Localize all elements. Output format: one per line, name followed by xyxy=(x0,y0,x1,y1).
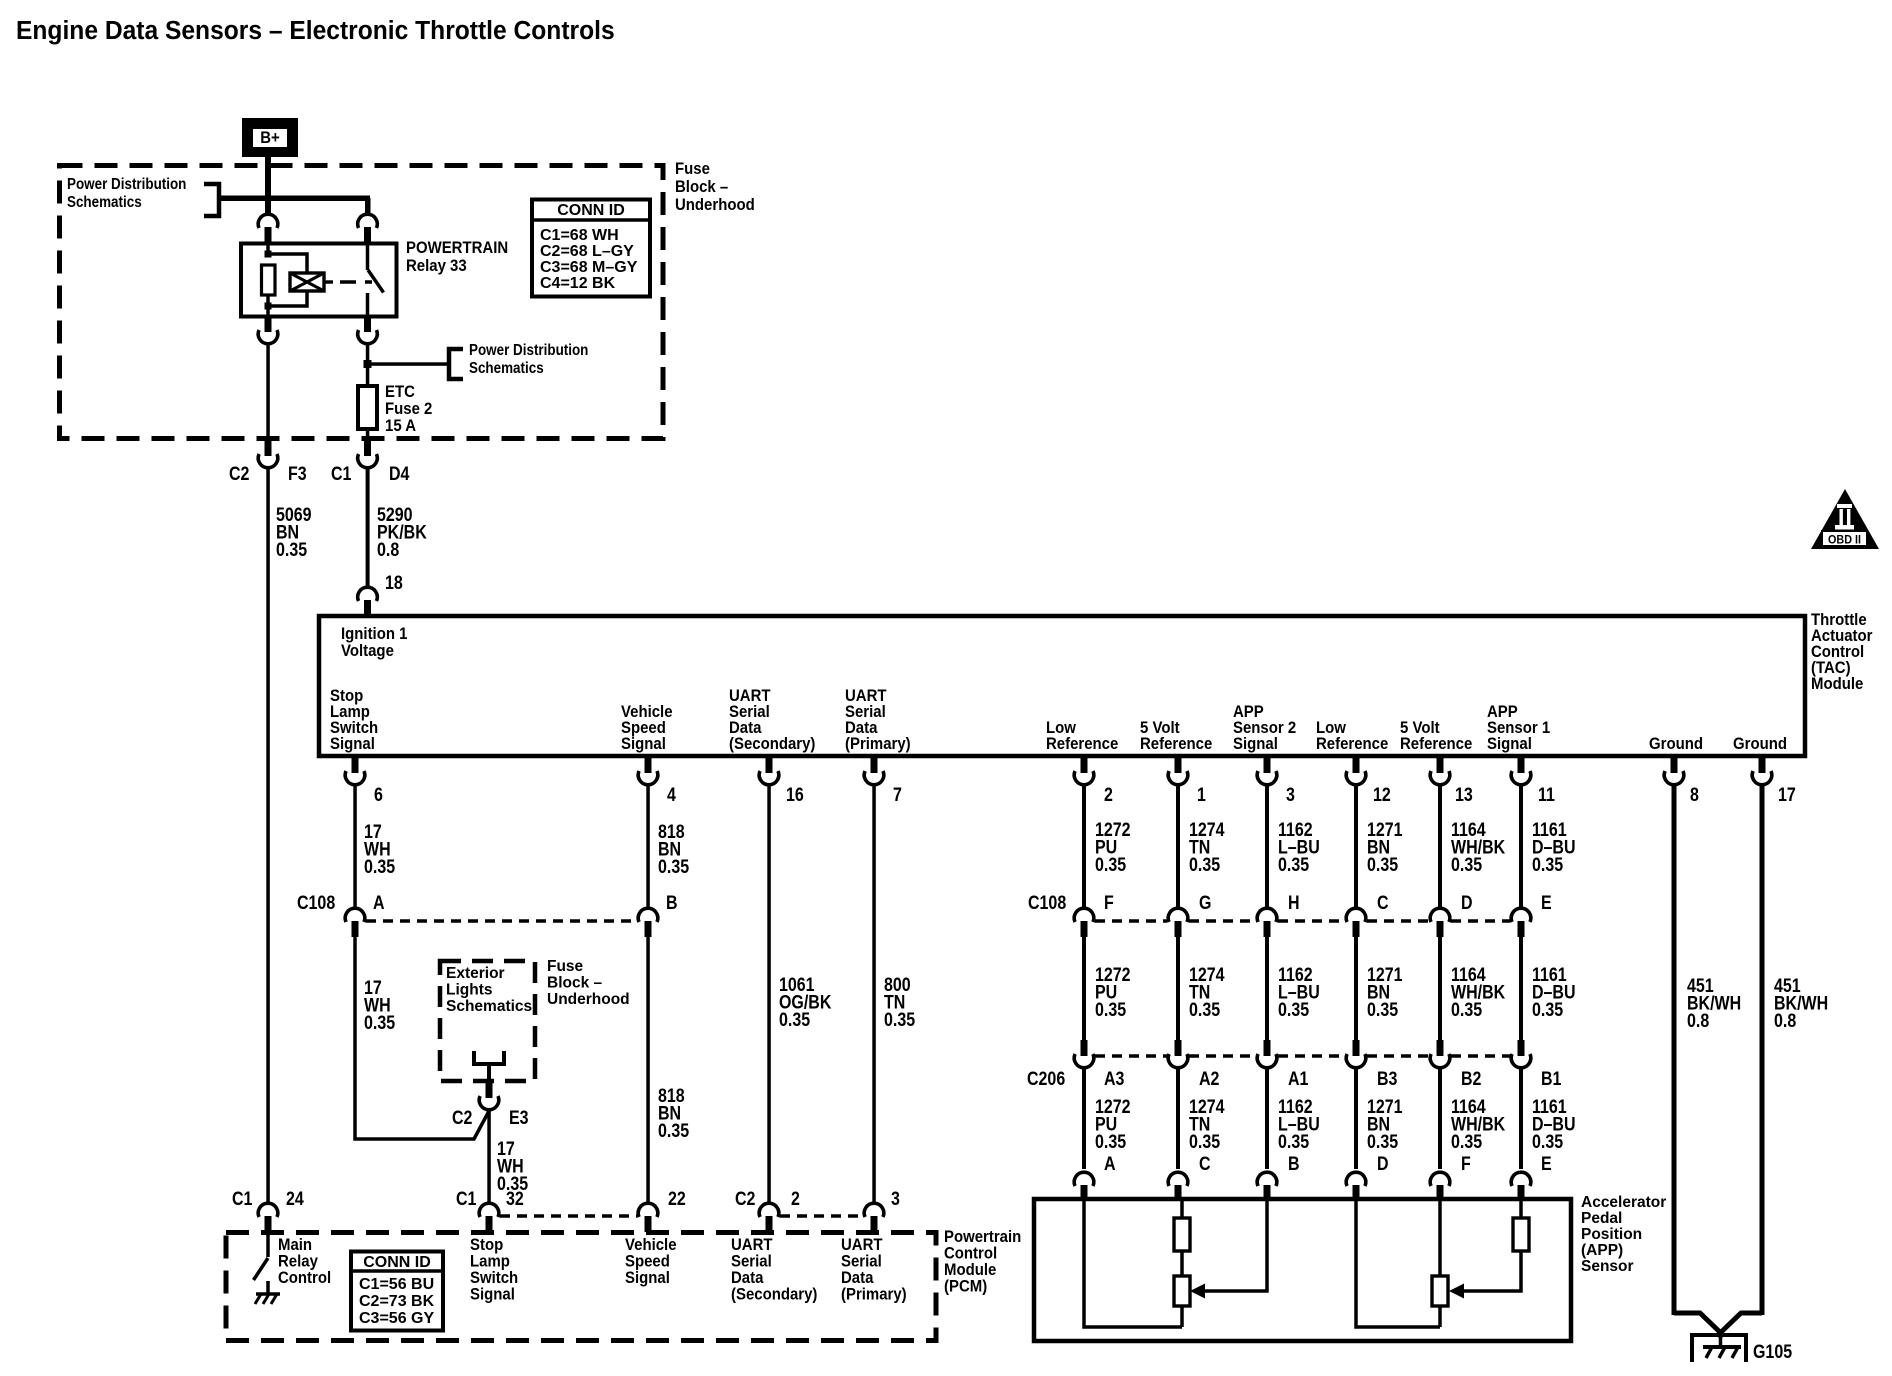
svg-text:C: C xyxy=(1377,892,1389,914)
connector C2 E3 xyxy=(479,1082,499,1110)
label 17 WH 0.35 (lower) xyxy=(497,1138,528,1195)
connector relay pin 85 out xyxy=(258,316,278,344)
svg-text:Signal: Signal xyxy=(1487,735,1532,753)
node coil top junction xyxy=(265,251,272,258)
svg-text:4: 4 xyxy=(667,784,676,806)
svg-text:Block –: Block – xyxy=(547,975,603,992)
svg-text:17: 17 xyxy=(1778,784,1796,806)
label C1 32 xyxy=(456,1188,524,1210)
label Exterior Lights Schematics xyxy=(446,965,532,1015)
label Fuse Block Underhood xyxy=(675,160,755,214)
label 1274 TN 0.35 row3 xyxy=(1189,1096,1225,1153)
connector C108 D xyxy=(1430,908,1450,937)
APP sensor box xyxy=(1034,1199,1571,1341)
label 1161 D-BU 0.35 row1 xyxy=(1532,819,1576,876)
svg-text:C1=56 BU: C1=56 BU xyxy=(359,1276,434,1293)
label C108 left xyxy=(297,892,678,914)
switch main relay control xyxy=(254,1230,269,1294)
svg-text:24: 24 xyxy=(286,1188,304,1210)
label 1161 D-BU 0.35 row3 xyxy=(1532,1096,1576,1153)
wire 1271 BN col mid xyxy=(1354,935,1358,1041)
connector C206 A1 xyxy=(1257,1040,1277,1068)
connector C1 D4 xyxy=(358,440,378,468)
svg-text:0.35: 0.35 xyxy=(1451,854,1482,876)
svg-text:Reference: Reference xyxy=(1400,735,1472,753)
svg-text:Vehicle: Vehicle xyxy=(625,1236,677,1254)
node fuse feed junction xyxy=(364,360,372,368)
connector TAC pin 18 xyxy=(358,587,378,616)
svg-text:0.8: 0.8 xyxy=(1774,1010,1796,1032)
label 451 BK/WH 0.8 (left) xyxy=(1687,975,1741,1032)
svg-text:Control: Control xyxy=(944,1245,997,1263)
label 17 WH 0.35 (middle) xyxy=(364,977,395,1034)
label Fuse Block Underhood (exterior) xyxy=(547,958,630,1008)
label 5 Volt Reference (TAC pin 13) xyxy=(1400,719,1472,753)
connector C108 G xyxy=(1168,908,1188,937)
label C206 xyxy=(1027,1068,1562,1090)
svg-text:C1: C1 xyxy=(331,463,352,485)
svg-text:0.35: 0.35 xyxy=(276,539,307,561)
bracket to power distribution (upper) xyxy=(204,184,219,216)
label 1161 D-BU 0.35 row2 xyxy=(1532,964,1576,1021)
wire 17 WH middle xyxy=(355,935,489,1139)
wire 1162 L-BU col lower xyxy=(1265,1068,1269,1169)
svg-text:Exterior: Exterior xyxy=(446,965,505,982)
svg-text:C2=73 BK: C2=73 BK xyxy=(359,1293,435,1310)
label 1162 L-BU 0.35 row2 xyxy=(1278,964,1320,1021)
label 5069 BN 0.35 xyxy=(276,504,312,561)
label Stop Lamp Switch Signal (PCM) xyxy=(470,1236,518,1304)
label 818 BN 0.35 (upper) xyxy=(658,821,689,878)
svg-text:C1: C1 xyxy=(232,1188,253,1210)
wire relay out right to fuse xyxy=(366,344,370,386)
label 800 TN 0.35 xyxy=(884,974,915,1031)
svg-text:D4: D4 xyxy=(389,463,410,485)
wire 1164 WH/BK col upper xyxy=(1438,785,1442,908)
svg-text:OBD II: OBD II xyxy=(1828,534,1861,547)
svg-text:UART: UART xyxy=(841,1236,883,1254)
svg-text:16: 16 xyxy=(786,784,804,806)
label UART Serial Data (Secondary) (TAC) xyxy=(729,687,815,753)
wire C206 harness dashed xyxy=(1095,1054,1510,1058)
svg-text:Signal: Signal xyxy=(621,735,666,753)
svg-text:Pedal: Pedal xyxy=(1581,1210,1622,1227)
wire 1061 OG/BK xyxy=(767,785,771,1203)
resistor relay suppression xyxy=(262,265,276,295)
svg-text:C108: C108 xyxy=(1028,892,1066,914)
wire relay out left xyxy=(266,344,270,441)
svg-text:Engine Data Sensors – Electron: Engine Data Sensors – Electronic Throttl… xyxy=(16,17,615,45)
svg-text:8: 8 xyxy=(1690,784,1699,806)
label 1272 PU 0.35 row2 xyxy=(1095,964,1131,1021)
wire fuse to block edge xyxy=(366,429,370,441)
connector TAC pin 11 xyxy=(1511,757,1531,785)
svg-text:Ground: Ground xyxy=(1733,735,1787,753)
connector relay pin 87 out xyxy=(358,316,378,344)
wire 1274 TN col mid xyxy=(1176,935,1180,1041)
svg-text:POWERTRAIN: POWERTRAIN xyxy=(406,239,508,257)
svg-text:0.35: 0.35 xyxy=(1095,1131,1126,1153)
resistor APP sensor 2 xyxy=(1174,1218,1190,1251)
svg-text:13: 13 xyxy=(1455,784,1473,806)
CONN ID table (PCM) xyxy=(351,1252,443,1331)
wire 1161 D-BU col lower xyxy=(1519,1068,1523,1169)
svg-text:(PCM): (PCM) xyxy=(944,1278,987,1296)
wire feed to relay right pin xyxy=(365,198,371,214)
PCM dashed box xyxy=(226,1233,936,1341)
svg-text:Reference: Reference xyxy=(1046,735,1118,753)
wire 818 BN pin4 upper xyxy=(646,785,650,908)
svg-text:Module: Module xyxy=(944,1261,996,1279)
connector APP C xyxy=(1168,1172,1188,1201)
svg-text:B: B xyxy=(666,892,678,914)
label 818 BN 0.35 (lower) xyxy=(658,1085,689,1142)
connector PCM pin 3 xyxy=(864,1203,884,1232)
label C2 2 xyxy=(735,1188,800,1210)
label APP Sensor 2 Signal xyxy=(1233,703,1296,753)
svg-text:15 A: 15 A xyxy=(385,417,416,435)
label C1 24 xyxy=(232,1188,304,1210)
svg-text:1: 1 xyxy=(1197,784,1206,806)
svg-text:ETC: ETC xyxy=(385,383,415,401)
svg-text:E: E xyxy=(1541,892,1552,914)
connector C108 H xyxy=(1257,908,1277,937)
connector TAC pin 16 xyxy=(759,757,779,785)
label 1272 PU 0.35 row3 xyxy=(1095,1096,1131,1153)
connector C108 B xyxy=(638,908,658,937)
label 1164 WH/BK 0.35 row1 xyxy=(1451,819,1505,876)
connector PCM pin 22 xyxy=(638,1203,658,1232)
connector APP D xyxy=(1346,1172,1366,1201)
svg-text:Fuse 2: Fuse 2 xyxy=(385,400,432,418)
label 1061 OG/BK 0.35 xyxy=(779,974,832,1031)
svg-text:C108: C108 xyxy=(297,892,335,914)
label 451 BK/WH 0.8 (right) xyxy=(1774,975,1828,1032)
connector PCM C2 2 xyxy=(759,1203,779,1232)
svg-text:Power Distribution: Power Distribution xyxy=(469,342,588,359)
svg-text:A: A xyxy=(373,892,385,914)
connector APP E xyxy=(1511,1172,1531,1201)
label 1274 TN 0.35 row2 xyxy=(1189,964,1225,1021)
svg-text:C2=68 L–GY: C2=68 L–GY xyxy=(540,243,634,260)
label UART Serial Data (Secondary) (PCM) xyxy=(731,1236,817,1304)
wire 17 WH lower xyxy=(487,1110,491,1203)
connector TAC pin 6 xyxy=(345,757,365,785)
svg-text:E3: E3 xyxy=(509,1107,529,1129)
connector C206 B1 xyxy=(1511,1040,1531,1068)
svg-text:C1=68 WH: C1=68 WH xyxy=(540,227,619,244)
svg-text:0.35: 0.35 xyxy=(1278,999,1309,1021)
wire 1162 L-BU col upper xyxy=(1265,785,1269,908)
label C108 right xyxy=(1028,892,1552,914)
OBD II symbol xyxy=(1811,489,1879,549)
svg-text:C4=12 BK: C4=12 BK xyxy=(540,275,616,292)
svg-text:Relay: Relay xyxy=(278,1253,318,1271)
svg-text:Underhood: Underhood xyxy=(675,196,755,214)
svg-text:C206: C206 xyxy=(1027,1068,1065,1090)
potentiometer APP sensor 2 xyxy=(1174,1276,1190,1306)
svg-text:0.35: 0.35 xyxy=(1095,854,1126,876)
connector PCM C1 24 xyxy=(258,1203,278,1232)
label Main Relay Control xyxy=(278,1236,331,1287)
svg-text:0.35: 0.35 xyxy=(884,1009,915,1031)
svg-text:Speed: Speed xyxy=(625,1253,670,1271)
svg-text:Schematics: Schematics xyxy=(67,194,142,211)
label 17 WH 0.35 (upper) xyxy=(364,821,395,878)
label Ignition 1 Voltage xyxy=(341,625,408,660)
svg-text:0.35: 0.35 xyxy=(1451,1131,1482,1153)
wire C108 harness dashed (right) xyxy=(1095,919,1510,923)
label 1272 PU 0.35 row1 xyxy=(1095,819,1131,876)
label ETC Fuse 2 15 A xyxy=(385,383,432,435)
TAC module box xyxy=(319,616,1805,756)
label Vehicle Speed Signal (PCM) xyxy=(625,1236,677,1287)
svg-text:UART: UART xyxy=(731,1236,773,1254)
svg-text:B: B xyxy=(1288,1153,1300,1175)
relay POWERTRAIN Relay 33 box xyxy=(241,244,397,317)
svg-text:Block –: Block – xyxy=(675,178,728,196)
svg-text:B3: B3 xyxy=(1377,1068,1398,1090)
label Stop Lamp Switch Signal (TAC) xyxy=(330,687,378,753)
svg-text:Reference: Reference xyxy=(1316,735,1388,753)
wire 17 WH pin6 upper xyxy=(353,785,357,908)
connector TAC pin 1 xyxy=(1168,757,1188,785)
svg-text:Fuse: Fuse xyxy=(675,160,710,178)
svg-text:(APP): (APP) xyxy=(1581,1242,1623,1259)
svg-text:Accelerator: Accelerator xyxy=(1581,1194,1666,1211)
wire 1272 PU col upper xyxy=(1082,785,1086,908)
svg-text:0.35: 0.35 xyxy=(1367,854,1398,876)
wire PCM C1 harness dashed xyxy=(500,1214,637,1218)
label Low Reference (TAC pin 2) xyxy=(1046,719,1118,753)
label 1162 L-BU 0.35 row1 xyxy=(1278,819,1320,876)
connector TAC pin 2 xyxy=(1074,757,1094,785)
wire 5069 BN upper xyxy=(266,468,270,1203)
wire 1162 L-BU col mid xyxy=(1265,935,1269,1041)
wire 1164 WH/BK col lower xyxy=(1438,1068,1442,1169)
svg-text:Ground: Ground xyxy=(1649,735,1703,753)
svg-text:0.8: 0.8 xyxy=(1687,1010,1709,1032)
svg-text:Powertrain: Powertrain xyxy=(944,1228,1021,1246)
svg-text:0.35: 0.35 xyxy=(1532,854,1563,876)
wire APP D leg xyxy=(1356,1199,1440,1327)
svg-text:12: 12 xyxy=(1373,784,1391,806)
wire 1272 PU col lower xyxy=(1082,1068,1086,1169)
svg-text:Schematics: Schematics xyxy=(446,998,532,1015)
svg-text:32: 32 xyxy=(506,1188,524,1210)
svg-text:A2: A2 xyxy=(1199,1068,1220,1090)
connector C108 C xyxy=(1346,908,1366,937)
relay coil box xyxy=(290,273,324,291)
svg-text:7: 7 xyxy=(893,784,902,806)
wire C108 harness dashed (left) xyxy=(366,919,637,923)
wire APP F leg xyxy=(1438,1199,1442,1327)
connector C108 F xyxy=(1074,908,1094,937)
label C2 F3 xyxy=(229,463,307,485)
svg-text:C2: C2 xyxy=(735,1188,756,1210)
svg-text:6: 6 xyxy=(374,784,383,806)
svg-text:Lamp: Lamp xyxy=(470,1253,510,1271)
svg-text:Schematics: Schematics xyxy=(469,360,544,377)
connector C2 F3 xyxy=(258,440,278,468)
label Power Distribution Schematics (lower) xyxy=(469,342,588,377)
label 1271 BN 0.35 row3 xyxy=(1367,1096,1403,1153)
wire 5290 PK/BK xyxy=(366,468,370,587)
label Powertrain Control Module (PCM) xyxy=(944,1228,1021,1296)
wire to power distribution bracket xyxy=(368,362,449,366)
svg-text:C1: C1 xyxy=(456,1188,477,1210)
svg-text:B1: B1 xyxy=(1541,1068,1562,1090)
svg-text:Signal: Signal xyxy=(625,1269,670,1287)
svg-text:F: F xyxy=(1461,1153,1471,1175)
svg-text:Ignition 1: Ignition 1 xyxy=(341,625,408,643)
svg-text:0.35: 0.35 xyxy=(1367,1131,1398,1153)
svg-text:0.35: 0.35 xyxy=(364,1012,395,1034)
wire 1274 TN col upper xyxy=(1176,785,1180,908)
connector C108 E xyxy=(1511,908,1531,937)
svg-text:Signal: Signal xyxy=(470,1286,515,1304)
svg-text:C2: C2 xyxy=(452,1107,473,1129)
CONN ID table (fuse block) xyxy=(532,200,650,297)
label C2 E3 xyxy=(452,1107,529,1129)
svg-text:3: 3 xyxy=(891,1188,900,1210)
battery feed B+ xyxy=(242,118,298,157)
svg-text:A3: A3 xyxy=(1104,1068,1125,1090)
svg-text:Data: Data xyxy=(731,1269,763,1287)
svg-text:22: 22 xyxy=(668,1188,686,1210)
svg-text:CONN ID: CONN ID xyxy=(363,1254,431,1271)
svg-text:B+: B+ xyxy=(260,129,280,147)
svg-text:0.35: 0.35 xyxy=(658,856,689,878)
connector exterior lights terminal xyxy=(474,1051,504,1083)
svg-text:Relay 33: Relay 33 xyxy=(406,257,467,275)
svg-text:0.35: 0.35 xyxy=(1532,1131,1563,1153)
wire 1164 WH/BK col mid xyxy=(1438,935,1442,1041)
svg-text:C: C xyxy=(1199,1153,1211,1175)
svg-text:0.35: 0.35 xyxy=(1095,999,1126,1021)
svg-text:Power Distribution: Power Distribution xyxy=(67,176,186,193)
svg-text:F3: F3 xyxy=(288,463,307,485)
svg-text:Reference: Reference xyxy=(1140,735,1212,753)
wire 800 TN xyxy=(872,785,876,1203)
svg-text:Fuse: Fuse xyxy=(547,958,584,975)
svg-text:0.8: 0.8 xyxy=(377,539,399,561)
svg-text:Signal: Signal xyxy=(1233,735,1278,753)
svg-text:2: 2 xyxy=(1104,784,1113,806)
svg-text:C3=68 M–GY: C3=68 M–GY xyxy=(540,259,638,276)
label POWERTRAIN Relay 33 xyxy=(406,239,508,275)
ground chassis (main relay) xyxy=(255,1294,280,1304)
svg-text:Module: Module xyxy=(1811,675,1863,693)
svg-text:G105: G105 xyxy=(1753,1341,1792,1363)
fuse ETC Fuse 2 xyxy=(358,386,377,429)
label Low Reference (TAC pin 12) xyxy=(1316,719,1388,753)
svg-text:0.35: 0.35 xyxy=(1278,1131,1309,1153)
svg-text:Stop: Stop xyxy=(470,1236,503,1254)
label 5290 PK/BK 0.8 xyxy=(377,504,427,561)
wire 451 BK/WH left xyxy=(1672,785,1677,1315)
svg-text:Position: Position xyxy=(1581,1226,1642,1243)
label APP Sensor 1 Signal xyxy=(1487,703,1550,753)
connector C206 A3 xyxy=(1074,1040,1094,1068)
bracket to power distribution (lower) xyxy=(449,349,463,379)
svg-text:Data: Data xyxy=(841,1269,873,1287)
svg-text:Sensor: Sensor xyxy=(1581,1258,1634,1275)
svg-text:F: F xyxy=(1104,892,1114,914)
ground G105 xyxy=(1692,1335,1746,1362)
svg-text:Voltage: Voltage xyxy=(341,642,394,660)
wire 451 BK/WH right xyxy=(1760,785,1765,1315)
svg-text:0.35: 0.35 xyxy=(1189,999,1220,1021)
svg-text:D: D xyxy=(1377,1153,1389,1175)
svg-text:0.35: 0.35 xyxy=(1451,999,1482,1021)
svg-text:0.35: 0.35 xyxy=(1189,854,1220,876)
label Vehicle Speed Signal (TAC) xyxy=(621,703,673,753)
svg-text:A: A xyxy=(1104,1153,1116,1175)
connector PCM C1 32 xyxy=(479,1203,499,1232)
connector APP F xyxy=(1430,1172,1450,1201)
svg-text:0.35: 0.35 xyxy=(1532,999,1563,1021)
wire relay coil feed xyxy=(266,241,270,317)
connector relay pin 86 xyxy=(258,214,278,243)
svg-text:E: E xyxy=(1541,1153,1552,1175)
wire 1271 BN col lower xyxy=(1354,1068,1358,1169)
wire APP B wiper xyxy=(1190,1199,1267,1299)
svg-text:Underhood: Underhood xyxy=(547,991,630,1008)
svg-text:18: 18 xyxy=(385,572,403,594)
label 1271 BN 0.35 row1 xyxy=(1367,819,1403,876)
svg-text:H: H xyxy=(1288,892,1300,914)
wire 818 BN lower xyxy=(646,935,650,1203)
connector TAC pin 8 xyxy=(1664,757,1684,785)
wire APP E wiper xyxy=(1449,1199,1521,1299)
svg-text:(Primary): (Primary) xyxy=(845,735,911,753)
wire B+ vertical xyxy=(265,157,271,214)
connector TAC pin 13 xyxy=(1430,757,1450,785)
svg-text:A1: A1 xyxy=(1288,1068,1309,1090)
connector TAC pin 4 xyxy=(638,757,658,785)
svg-text:11: 11 xyxy=(1538,784,1555,806)
svg-text:0.35: 0.35 xyxy=(658,1120,689,1142)
svg-text:0.35: 0.35 xyxy=(779,1009,810,1031)
label UART Serial Data (Primary) (PCM) xyxy=(841,1236,907,1304)
svg-text:2: 2 xyxy=(791,1188,800,1210)
svg-text:Lights: Lights xyxy=(446,982,493,999)
node coil bottom junction xyxy=(265,303,272,310)
label Throttle Actuator Control (TAC) Module xyxy=(1811,611,1872,693)
wire APP A leg xyxy=(1084,1199,1182,1327)
connector TAC pin 12 xyxy=(1346,757,1366,785)
svg-text:G: G xyxy=(1199,892,1211,914)
svg-text:B2: B2 xyxy=(1461,1068,1482,1090)
svg-text:(Secondary): (Secondary) xyxy=(731,1286,817,1304)
svg-text:0.35: 0.35 xyxy=(364,856,395,878)
svg-text:Signal: Signal xyxy=(330,735,375,753)
label Power Distribution Schematics (upper) xyxy=(67,176,186,211)
label 1164 WH/BK 0.35 row2 xyxy=(1451,964,1505,1021)
wire 1272 PU col mid xyxy=(1082,935,1086,1041)
svg-text:C2: C2 xyxy=(229,463,250,485)
wire ground merge xyxy=(1674,1313,1762,1347)
wire PCM C2 harness dashed xyxy=(780,1214,863,1218)
connector TAC pin 7 xyxy=(864,757,884,785)
connector APP B xyxy=(1257,1172,1277,1201)
connector C206 B2 xyxy=(1430,1040,1450,1068)
connector C206 B3 xyxy=(1346,1040,1366,1068)
svg-text:Switch: Switch xyxy=(470,1269,518,1287)
connector C108 A xyxy=(345,908,365,937)
wire B+ feed horizontal xyxy=(219,196,370,202)
